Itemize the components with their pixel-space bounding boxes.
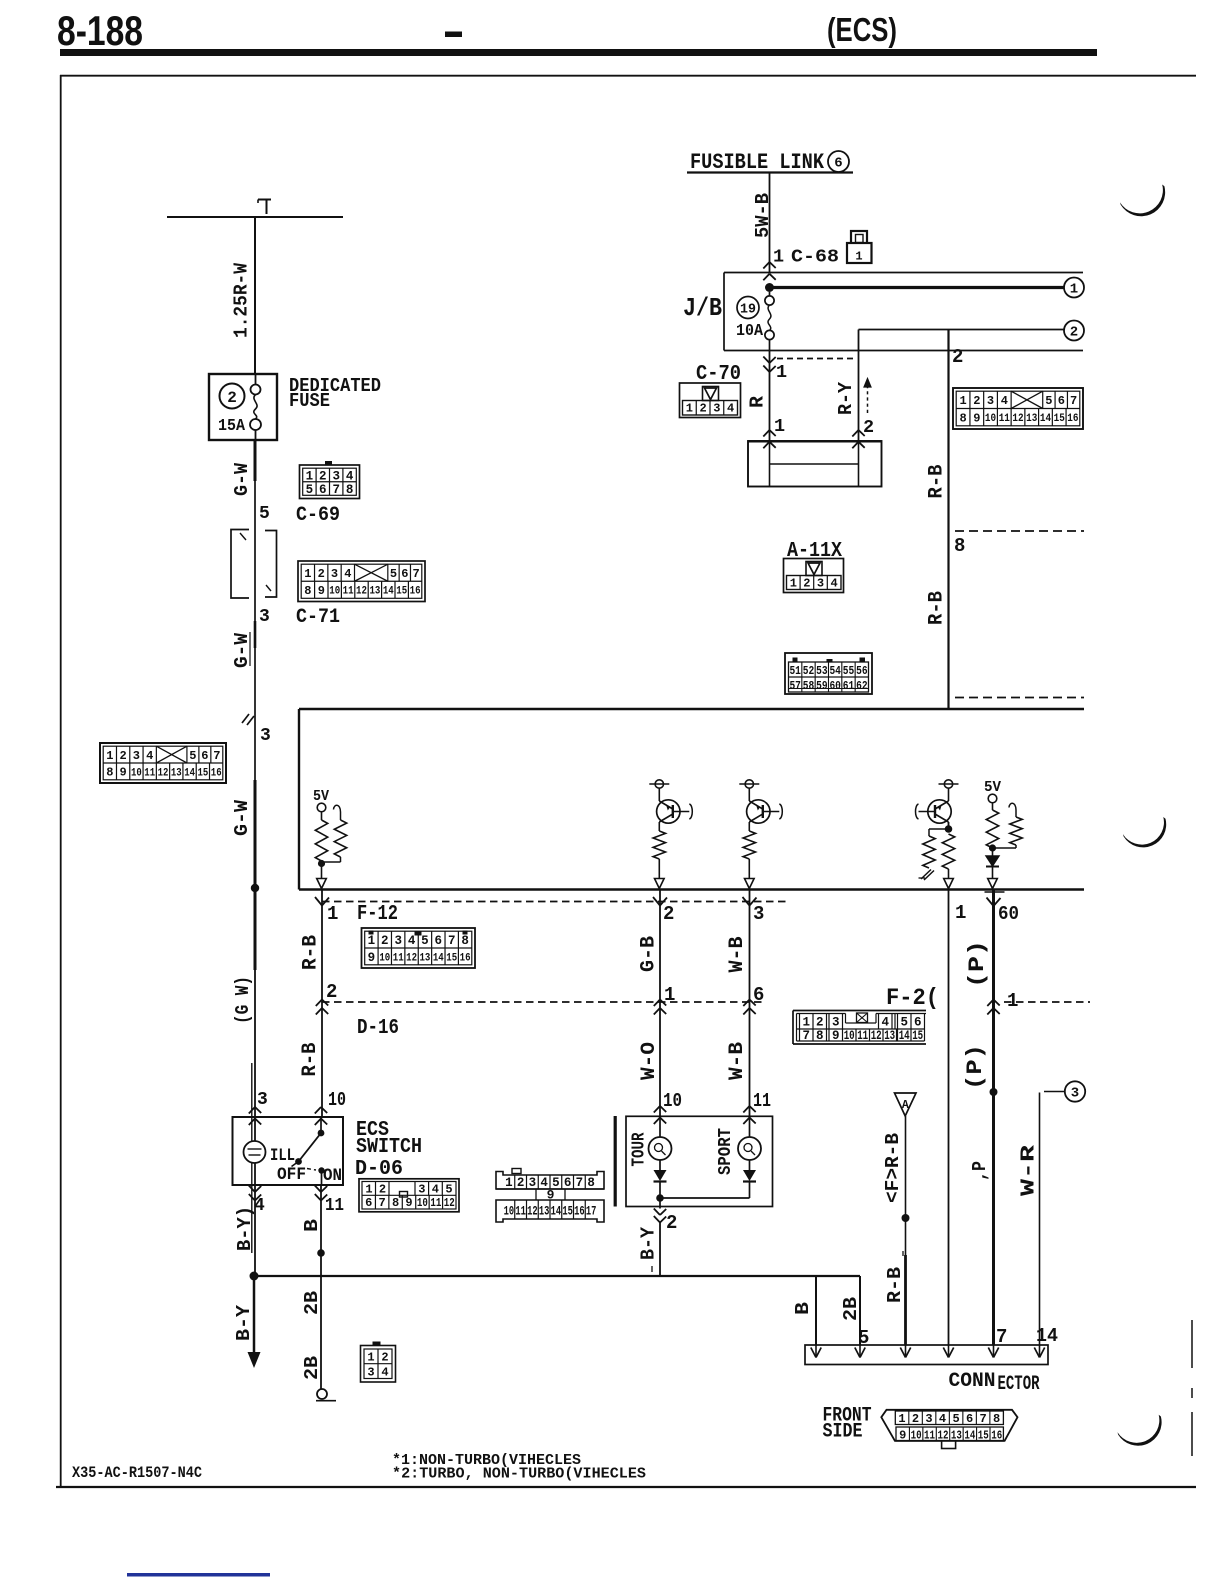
svg-text:W-O: W-O [638, 1042, 661, 1080]
svg-text:,P: ,P [969, 1161, 991, 1181]
svg-text:8: 8 [106, 766, 113, 780]
svg-text:2: 2 [666, 1212, 677, 1234]
svg-text:10: 10 [417, 1196, 428, 1210]
svg-text:8: 8 [392, 1196, 399, 1210]
svg-text:6: 6 [966, 1412, 973, 1426]
svg-text:9: 9 [318, 584, 325, 598]
svg-text:R-B: R-B [299, 1043, 322, 1077]
svg-text:*2:TURBO, NON-TURBO(VIHECLES: *2:TURBO, NON-TURBO(VIHECLES [392, 1466, 646, 1483]
svg-text:7: 7 [332, 483, 340, 497]
svg-text:4: 4 [146, 749, 153, 763]
svg-text:OFF: OFF [277, 1165, 306, 1185]
svg-text:W-R: W-R [1018, 1144, 1040, 1196]
svg-text:R: R [747, 395, 769, 408]
svg-text:2: 2 [1070, 325, 1078, 341]
svg-text:8: 8 [461, 934, 469, 948]
svg-text:8-188: 8-188 [57, 7, 143, 54]
svg-text:12: 12 [158, 767, 169, 779]
svg-text:2: 2 [227, 389, 237, 407]
svg-text:10: 10 [329, 586, 340, 598]
svg-text:1: 1 [790, 577, 797, 591]
svg-text:TOUR: TOUR [629, 1132, 650, 1167]
svg-text:8: 8 [816, 1029, 824, 1043]
svg-text:B-Y: B-Y [233, 1304, 255, 1341]
svg-text:54: 54 [829, 665, 841, 678]
svg-text:G-W: G-W [231, 799, 253, 836]
svg-text:15: 15 [396, 586, 407, 598]
svg-text:2: 2 [379, 1183, 386, 1197]
svg-text:11: 11 [393, 952, 404, 964]
svg-text:1: 1 [898, 1412, 905, 1426]
svg-text:10: 10 [663, 1090, 682, 1112]
svg-text:2: 2 [973, 394, 980, 408]
svg-text:SPORT: SPORT [715, 1128, 736, 1175]
svg-text:7: 7 [379, 1196, 386, 1210]
svg-text:G-B: G-B [638, 936, 661, 972]
svg-text:17: 17 [586, 1205, 597, 1219]
svg-text:3: 3 [925, 1412, 932, 1426]
svg-text:14: 14 [383, 586, 394, 598]
svg-text:13: 13 [539, 1205, 550, 1219]
svg-text:2B: 2B [840, 1297, 862, 1321]
svg-text:5: 5 [952, 1412, 959, 1426]
svg-text:5: 5 [390, 567, 397, 581]
svg-text:10: 10 [328, 1089, 346, 1111]
svg-text:1: 1 [327, 903, 338, 925]
svg-text:12: 12 [871, 1029, 882, 1043]
svg-text:11: 11 [515, 1205, 526, 1219]
svg-text:A: A [902, 1099, 909, 1112]
svg-text:5: 5 [445, 1183, 452, 1197]
svg-text:1: 1 [304, 567, 311, 581]
svg-text:52: 52 [803, 665, 815, 678]
svg-text:R-B: R-B [884, 1267, 906, 1303]
svg-text:10: 10 [985, 413, 996, 425]
svg-text:4: 4 [408, 934, 416, 948]
svg-text:2: 2 [381, 934, 389, 948]
svg-text:14: 14 [433, 952, 444, 964]
svg-text:7: 7 [802, 1029, 810, 1043]
svg-text:8: 8 [993, 1412, 1000, 1426]
svg-text:1: 1 [1070, 282, 1078, 298]
svg-text:(G W): (G W) [232, 976, 254, 1024]
svg-text:9: 9 [832, 1029, 840, 1043]
svg-text:1: 1 [664, 984, 675, 1006]
svg-text:11: 11 [430, 1196, 441, 1210]
svg-text:3: 3 [394, 934, 402, 948]
svg-text:13: 13 [369, 586, 380, 598]
svg-text:6: 6 [914, 1016, 922, 1030]
svg-text:11: 11 [325, 1196, 344, 1216]
svg-text:10A: 10A [736, 322, 764, 341]
svg-text:51: 51 [789, 665, 801, 678]
svg-text:2: 2 [326, 981, 337, 1003]
svg-text:3: 3 [331, 567, 338, 581]
svg-text:J/B: J/B [683, 293, 722, 323]
svg-text:12: 12 [444, 1196, 455, 1210]
svg-text:SWITCH: SWITCH [356, 1136, 422, 1159]
svg-text:6: 6 [435, 934, 443, 948]
svg-text:(P): (P) [963, 1044, 988, 1090]
svg-text:15: 15 [446, 952, 457, 964]
svg-text:W-B: W-B [726, 1042, 749, 1080]
svg-text:2: 2 [663, 903, 674, 925]
svg-text:3: 3 [133, 749, 140, 763]
svg-text:8: 8 [346, 483, 354, 497]
svg-text:CONN: CONN [949, 1370, 996, 1393]
svg-text:C-68: C-68 [791, 247, 839, 268]
svg-text:57: 57 [789, 680, 801, 693]
svg-text:14: 14 [1040, 413, 1052, 425]
svg-text:X35-AC-R1507-N4C: X35-AC-R1507-N4C [72, 1464, 202, 1482]
svg-text:5: 5 [306, 483, 314, 497]
svg-text:10: 10 [379, 952, 390, 964]
svg-text:14: 14 [964, 1428, 975, 1442]
svg-text:1: 1 [368, 934, 376, 948]
svg-text:4: 4 [344, 567, 351, 581]
svg-text:15: 15 [912, 1029, 923, 1043]
svg-text:12: 12 [527, 1205, 538, 1219]
svg-text:5: 5 [1045, 394, 1052, 408]
svg-text:C-69: C-69 [296, 504, 340, 527]
svg-text:F-12: F-12 [357, 903, 398, 926]
svg-text:14: 14 [1036, 1325, 1058, 1347]
svg-text:B: B [792, 1302, 814, 1315]
svg-text:6: 6 [201, 749, 208, 763]
svg-text:9: 9 [899, 1428, 906, 1442]
svg-text:ILL: ILL [270, 1146, 295, 1166]
svg-text:B-Y): B-Y) [234, 1206, 256, 1251]
svg-text:4: 4 [939, 1412, 946, 1426]
svg-text:4: 4 [1001, 394, 1008, 408]
svg-text:11: 11 [857, 1029, 868, 1043]
svg-text:SIDE: SIDE [823, 1421, 863, 1444]
svg-text:W-B: W-B [726, 937, 749, 973]
svg-text:2: 2 [119, 749, 126, 763]
svg-text:6: 6 [319, 483, 327, 497]
svg-text:ECTOR: ECTOR [998, 1373, 1040, 1396]
svg-text:FUSE: FUSE [289, 390, 330, 412]
svg-text:61: 61 [843, 680, 855, 693]
svg-text:60: 60 [829, 680, 841, 693]
svg-text:1: 1 [959, 394, 966, 408]
svg-text:53: 53 [816, 665, 828, 678]
svg-text:2: 2 [816, 1016, 824, 1030]
svg-text:8: 8 [954, 535, 965, 557]
svg-text:3: 3 [259, 607, 270, 627]
svg-text:1: 1 [367, 1351, 374, 1365]
svg-text:6: 6 [564, 1176, 572, 1190]
svg-text:8: 8 [304, 584, 311, 598]
svg-text:13: 13 [419, 952, 430, 964]
svg-text:12: 12 [406, 952, 417, 964]
svg-text:2: 2 [912, 1412, 919, 1426]
svg-text:7: 7 [448, 934, 456, 948]
svg-text:19: 19 [740, 303, 756, 318]
svg-text:16: 16 [991, 1428, 1002, 1442]
svg-text:5: 5 [900, 1016, 908, 1030]
svg-text:62: 62 [856, 680, 868, 693]
svg-text:6: 6 [1058, 394, 1065, 408]
svg-text:7: 7 [412, 567, 419, 581]
svg-text:15: 15 [1054, 413, 1066, 425]
svg-text:R-B: R-B [300, 935, 323, 970]
svg-text:A-11X: A-11X [787, 540, 842, 563]
svg-text:16: 16 [460, 952, 471, 964]
svg-text:16: 16 [211, 767, 222, 779]
svg-text:59: 59 [816, 680, 828, 693]
svg-text:8: 8 [587, 1176, 595, 1190]
svg-text:58: 58 [803, 680, 815, 693]
svg-text:3: 3 [987, 394, 994, 408]
svg-text:3: 3 [1071, 1086, 1079, 1102]
svg-text:13: 13 [171, 767, 182, 779]
svg-text:10: 10 [844, 1029, 855, 1043]
svg-text:11: 11 [924, 1428, 935, 1442]
svg-text:FUSIBLE LINK: FUSIBLE LINK [690, 150, 825, 175]
svg-text:10: 10 [504, 1205, 515, 1219]
svg-text:7: 7 [1070, 394, 1077, 408]
svg-text:14: 14 [551, 1205, 562, 1219]
svg-text:1.25R-W: 1.25R-W [231, 262, 253, 338]
svg-text:11: 11 [343, 586, 354, 598]
svg-text:15: 15 [562, 1205, 573, 1219]
svg-text:D-06: D-06 [355, 1158, 403, 1181]
svg-text:15A: 15A [218, 416, 245, 435]
svg-text:R-B: R-B [925, 465, 948, 499]
svg-text:11: 11 [999, 413, 1011, 425]
svg-text:13: 13 [884, 1029, 895, 1043]
svg-text:6: 6 [753, 984, 764, 1006]
svg-text:16: 16 [1067, 413, 1078, 425]
svg-text:1: 1 [686, 402, 693, 416]
svg-text:11: 11 [753, 1090, 771, 1112]
svg-text:2B: 2B [301, 1291, 323, 1315]
svg-text:F-2(: F-2( [886, 985, 939, 1011]
svg-text:12: 12 [1012, 413, 1023, 425]
svg-text:2: 2 [318, 567, 325, 581]
svg-text:1: 1 [505, 1176, 513, 1190]
svg-text:1: 1 [774, 416, 785, 437]
svg-text:1: 1 [1007, 990, 1018, 1012]
svg-text:ON: ON [323, 1166, 342, 1186]
svg-text:<F>R-B: <F>R-B [882, 1133, 904, 1203]
svg-text:R-B: R-B [925, 591, 948, 625]
svg-text:10: 10 [131, 767, 142, 779]
svg-text:3: 3 [713, 402, 720, 416]
svg-text:6: 6 [834, 156, 842, 172]
svg-text:3: 3 [418, 1183, 425, 1197]
svg-text:14: 14 [184, 767, 195, 779]
svg-text:60: 60 [998, 903, 1019, 925]
svg-text:D-16: D-16 [357, 1017, 399, 1040]
svg-text:1: 1 [365, 1183, 372, 1197]
svg-text:5: 5 [259, 504, 270, 524]
svg-text:9: 9 [405, 1196, 412, 1210]
svg-text:2: 2 [517, 1176, 525, 1190]
svg-text:G-W: G-W [231, 462, 253, 496]
svg-text:3: 3 [367, 1366, 374, 1380]
svg-text:1: 1 [776, 362, 787, 383]
svg-text:7: 7 [576, 1176, 584, 1190]
svg-text:B: B [301, 1219, 323, 1232]
svg-text:16: 16 [574, 1205, 585, 1219]
svg-text:B-Y: B-Y [638, 1226, 660, 1260]
svg-text:R-Y: R-Y [835, 381, 857, 415]
svg-text:1: 1 [802, 1016, 810, 1030]
svg-text:5: 5 [189, 749, 196, 763]
svg-text:3: 3 [832, 1016, 840, 1030]
svg-text:2: 2 [700, 402, 707, 416]
svg-text:3: 3 [529, 1176, 537, 1190]
svg-text:56: 56 [856, 665, 868, 678]
svg-text:11: 11 [144, 767, 155, 779]
svg-text:1: 1 [773, 247, 784, 268]
svg-text:6: 6 [365, 1196, 372, 1210]
svg-text:4: 4 [830, 577, 837, 591]
svg-text:8: 8 [959, 412, 966, 426]
svg-text:(ECS): (ECS) [827, 11, 897, 48]
svg-text:9: 9 [973, 412, 980, 426]
svg-text:55: 55 [843, 665, 855, 678]
svg-text:16: 16 [410, 586, 421, 598]
svg-text:15: 15 [198, 767, 209, 779]
svg-text:2: 2 [803, 577, 810, 591]
svg-text:15: 15 [978, 1428, 989, 1442]
svg-text:3: 3 [753, 903, 764, 925]
svg-text:C-71: C-71 [296, 606, 340, 629]
svg-text:1: 1 [106, 749, 113, 763]
svg-text:5: 5 [421, 934, 429, 948]
svg-text:4: 4 [381, 1366, 388, 1380]
svg-text:4: 4 [727, 402, 734, 416]
svg-text:4: 4 [432, 1183, 439, 1197]
svg-text:9: 9 [368, 951, 376, 965]
svg-text:4: 4 [881, 1016, 889, 1030]
svg-text:9: 9 [119, 766, 126, 780]
svg-text:(P): (P) [965, 940, 990, 988]
svg-text:2: 2 [952, 346, 963, 368]
svg-text:5W-B: 5W-B [752, 193, 774, 238]
svg-text:3: 3 [817, 577, 824, 591]
svg-text:13: 13 [1026, 413, 1038, 425]
svg-text:10: 10 [911, 1428, 922, 1442]
svg-text:1: 1 [855, 250, 862, 264]
svg-text:2: 2 [381, 1351, 388, 1365]
svg-text:6: 6 [401, 567, 408, 581]
svg-text:7: 7 [213, 749, 220, 763]
svg-text:2B: 2B [301, 1356, 323, 1380]
svg-text:12: 12 [356, 586, 367, 598]
svg-text:3: 3 [260, 726, 271, 746]
svg-text:3: 3 [257, 1090, 268, 1110]
svg-text:7: 7 [979, 1412, 986, 1426]
svg-text:14: 14 [899, 1029, 910, 1043]
svg-text:1: 1 [955, 902, 966, 924]
